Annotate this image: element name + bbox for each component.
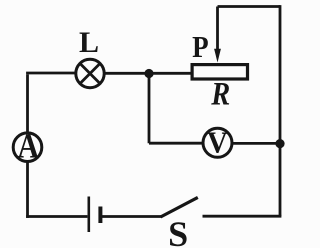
svg-text:V: V [207,125,228,160]
voltmeter V [203,125,232,160]
svg-text:R: R [210,76,230,112]
wire: junction down to voltmeter line [148,74,151,144]
svg-text:L: L [79,26,99,59]
wire: voltmeter line left [149,142,203,145]
svg-text:A: A [17,126,39,165]
lamp L [76,59,104,87]
wire: top-left horizontal to lamp [26,72,75,75]
switch S [161,197,198,217]
wire: right vertical [279,5,282,216]
node: junction dot right [275,139,284,148]
node: junction dot on lamp wire [144,69,153,78]
svg-text:P: P [192,29,209,64]
ammeter A [13,126,42,165]
wire: battery to switch [102,215,161,218]
battery cell [89,197,101,233]
wire: lamp to rheostat [104,72,191,75]
rheostat R body [192,65,247,79]
wire: voltmeter line right [232,142,280,145]
wire: switch to bottom-right corner [203,215,282,218]
wire: left vertical top segment [26,75,29,133]
wire: left vertical bottom segment [26,162,29,218]
svg-text:S: S [168,214,188,248]
slider P arrow [214,7,221,63]
wire: top horizontal [218,5,281,8]
wire: bottom-left horizontal to battery [26,215,87,218]
